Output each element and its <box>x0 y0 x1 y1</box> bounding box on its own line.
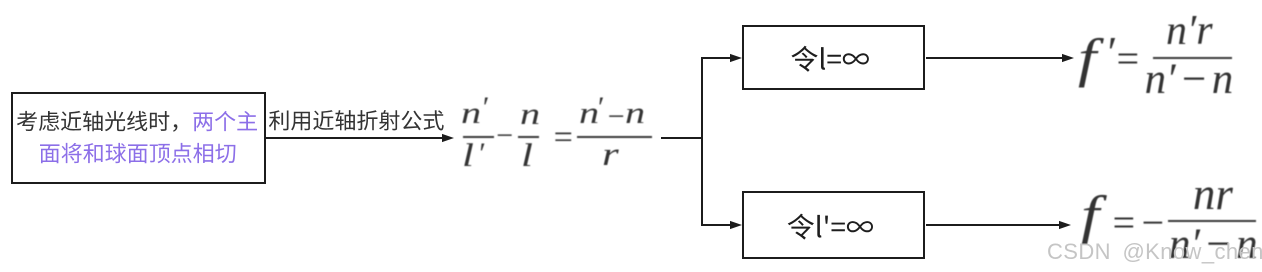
formula: n'/l' - n/l = (n'-n)/r <box>0 0 1 1</box>
wire: vertical branch line <box>701 58 703 225</box>
text: 两个主 <box>193 111 257 131</box>
text: 令l'=∞ <box>788 214 873 240</box>
text: 面将和球面顶点相切 <box>40 143 235 163</box>
box: 令l=∞ (top) <box>742 25 925 90</box>
wire: junction to bottom box <box>701 224 734 226</box>
text: 考虑近轴光线时， <box>17 111 177 132</box>
arrowhead: into bottom box <box>730 221 742 229</box>
arrowhead: into formula <box>442 134 454 142</box>
arrowhead: into top box <box>730 54 742 62</box>
arrowhead: into f' formula <box>1062 54 1074 62</box>
box: 考虑近轴光线时 (left) <box>11 92 266 184</box>
watermark: CSDN @Know_chen <box>1047 239 1262 265</box>
wire: top box to f' formula <box>926 57 1066 59</box>
wire: junction to top box <box>701 57 734 59</box>
wire: bottom box to f formula <box>926 224 1063 226</box>
box: 令l'=∞ (bottom) <box>742 191 925 259</box>
formula: f' = n'r/(n'-n) <box>0 0 1 1</box>
arrowhead: into f formula <box>1059 221 1071 229</box>
text: 利用近轴折射公式 <box>269 110 444 130</box>
text: 令l=∞ <box>791 46 869 72</box>
wire: left box to formula arrow <box>266 137 446 139</box>
formula: f = -nr/(n'-n) <box>0 0 1 1</box>
wire: formula to branch junction <box>661 137 702 139</box>
